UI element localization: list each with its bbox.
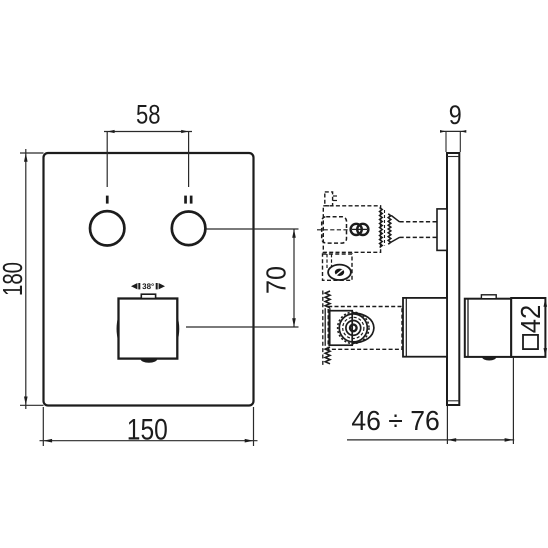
svg-text:150: 150 xyxy=(127,414,168,447)
label square symbol xyxy=(523,335,538,349)
knob top tab side xyxy=(481,295,496,299)
outlet module dashed box xyxy=(323,254,353,280)
knob bottom bump side xyxy=(482,357,496,361)
knob II circle xyxy=(172,212,206,246)
knob I circle xyxy=(90,211,124,245)
svg-text:58: 58 xyxy=(136,100,161,130)
valve centerline xyxy=(317,229,350,231)
thread zigzag right xyxy=(388,214,391,244)
dim 58 extension line left xyxy=(106,132,108,188)
dim 42 arrows xyxy=(544,298,548,307)
dim 46-76 extension left xyxy=(446,406,448,444)
dim 150 extension right xyxy=(253,407,255,446)
temperature square knob xyxy=(119,299,178,359)
stem dashed xyxy=(400,221,438,223)
sleeve xyxy=(403,298,447,357)
stem flange xyxy=(437,209,447,251)
thread zigzag left xyxy=(380,208,383,248)
bottom mount strip body lines xyxy=(324,308,326,346)
chain link detail xyxy=(351,224,362,235)
square right crescent xyxy=(177,316,179,343)
top valve body dashed outline xyxy=(323,192,380,252)
svg-text:70: 70 xyxy=(261,266,292,294)
square left crescent xyxy=(117,316,119,343)
stem cone xyxy=(391,216,399,222)
bottom valve body dashed xyxy=(328,307,402,350)
square top tab xyxy=(141,294,155,298)
square bottom bump xyxy=(140,359,157,363)
marker II ticks xyxy=(184,196,187,204)
dim 180 extension top xyxy=(20,152,44,154)
svg-text:9: 9 xyxy=(449,100,462,130)
svg-text:42: 42 xyxy=(515,305,546,334)
marker I tick xyxy=(106,196,109,204)
dim 150 extension left xyxy=(42,407,44,446)
plate side profile xyxy=(447,153,459,405)
svg-text:46 ÷ 76: 46 ÷ 76 xyxy=(351,405,440,436)
outlet screw ellipse xyxy=(328,265,351,280)
dim 58 extension line right xyxy=(188,132,190,188)
dim 180 extension bottom xyxy=(20,404,44,406)
38deg indicator right arrow xyxy=(156,283,158,289)
knob body side xyxy=(465,299,511,357)
dim 70 line xyxy=(293,229,295,327)
svg-text:180: 180 xyxy=(0,262,28,296)
plate side bottom cap line xyxy=(447,400,459,402)
bleed stub ticks xyxy=(333,195,337,197)
cartridge dome xyxy=(352,313,374,344)
dim 9 line xyxy=(443,130,464,132)
svg-text:38°: 38° xyxy=(142,282,154,291)
dim 58 line xyxy=(104,131,192,133)
bleed stub xyxy=(325,192,333,206)
dim 46-76 extension right xyxy=(512,358,514,445)
dim 70 bottom extension from square xyxy=(186,326,299,328)
dim 150 line xyxy=(40,440,258,442)
bottom mount strip dashed wall line xyxy=(322,291,324,366)
38deg indicator left arrow xyxy=(131,283,137,289)
plate side top cap line xyxy=(447,156,459,158)
bottom mount strip top teeth xyxy=(325,291,330,308)
bottom mount strip bottom teeth xyxy=(325,347,330,364)
knob head side xyxy=(511,298,545,357)
dim 70 top extension from knob II xyxy=(206,228,299,230)
cartridge circles xyxy=(339,314,367,342)
dim 46-76 line xyxy=(347,439,514,441)
dim 180 line xyxy=(25,149,27,409)
valve inner cap rounded xyxy=(322,217,347,243)
front plate outline xyxy=(44,153,254,406)
cartridge body xyxy=(329,311,352,346)
